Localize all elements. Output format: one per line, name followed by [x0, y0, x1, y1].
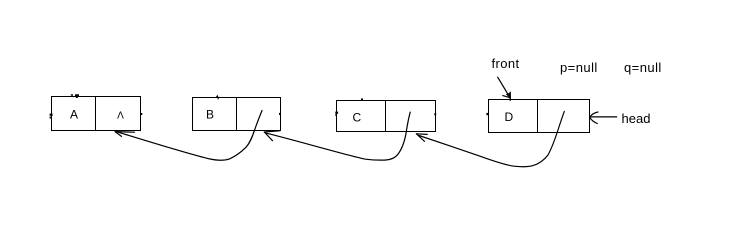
arrowhead at node A (B to A) — [115, 132, 134, 137]
pointer curve B to A (wire) — [117, 111, 262, 161]
head arrow shaft (wire) — [590, 116, 616, 118]
tick mark on node A left edge — [50, 114, 53, 119]
node D box — [489, 100, 590, 133]
node C box — [337, 101, 436, 132]
svg-text:front: front — [492, 56, 520, 71]
tick mark on node C right edge — [434, 113, 436, 115]
svg-text:C: C — [353, 111, 362, 125]
tick mark on node A right edge — [140, 113, 142, 115]
pointer curve D to C (wire) — [419, 111, 564, 166]
node B box — [193, 98, 281, 131]
tick mark on node B right edge — [279, 113, 281, 115]
svg-text:B: B — [206, 108, 214, 122]
svg-text:head: head — [622, 111, 651, 126]
front arrow shaft (wire) — [498, 77, 510, 97]
tick mark on node C top edge — [361, 98, 363, 100]
node A box — [52, 97, 141, 131]
arrowhead at node B (C to B) — [264, 131, 279, 141]
svg-text:D: D — [505, 110, 514, 124]
svg-text:q=null: q=null — [624, 60, 662, 75]
pointer curve C to B (wire) — [267, 112, 411, 160]
tick mark on node C left edge — [335, 112, 338, 116]
svg-text:p=null: p=null — [560, 60, 598, 75]
tick mark on node B top edge — [216, 96, 219, 99]
svg-text:Λ: Λ — [117, 111, 124, 122]
tick mark on node A top edge — [71, 94, 79, 98]
tick mark on node D left edge — [486, 113, 488, 115]
head arrowhead at node D right edge — [590, 112, 598, 124]
arrowhead at node C (D to C) — [416, 134, 427, 142]
front arrowhead at node D top — [503, 92, 511, 100]
svg-text:A: A — [70, 108, 78, 122]
